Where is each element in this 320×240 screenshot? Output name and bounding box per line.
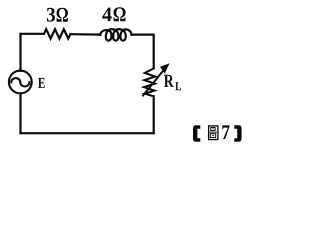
wire: between resistor and inductor (70, 33, 100, 36)
wire: top-right corner segment (inductor to right rail) (132, 35, 154, 69)
value label ohm symbol (L1) (114, 7, 126, 21)
resistor R1 3-ohm zigzag (44, 29, 70, 38)
value label ohm symbol (R1) (57, 8, 68, 22)
caption right black lenticular bracket (234, 125, 241, 142)
AC source sine wave (11, 78, 29, 86)
inductor L1 4-ohm coil (100, 29, 131, 40)
caption left black lenticular bracket (193, 125, 200, 142)
RL wiper arrow shaft (142, 70, 163, 96)
value label 3 (of 3-ohm resistor R1) (47, 8, 55, 22)
AC source E circle (9, 71, 32, 94)
RL wiper arrow head (160, 63, 170, 73)
value label 4 (of 4-ohm inductor L1) (102, 8, 111, 22)
wire: bottom rail (21, 132, 154, 134)
wire: left rail below source (19, 93, 21, 133)
source label E (38, 78, 45, 88)
variable resistor RL zigzag (144, 68, 155, 96)
load label R (of RL) (164, 75, 174, 87)
caption digit 7 (222, 125, 229, 139)
caption character tu (figure, traditional chinese) (209, 126, 218, 140)
load label subscript L (of RL) (175, 82, 181, 90)
wire: right rail below RL (153, 96, 155, 133)
wire: top-left corner segment (left rail top to resistor) (21, 34, 45, 71)
